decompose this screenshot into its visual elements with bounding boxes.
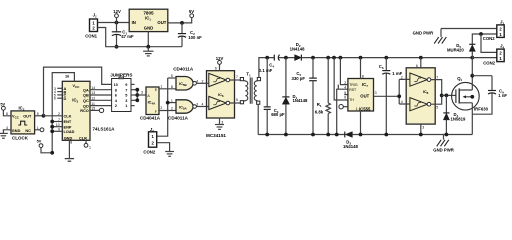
ground counter earth bbox=[65, 159, 74, 162]
terminal 5V clock bbox=[2, 106, 6, 110]
svg-text:OUT: OUT bbox=[360, 94, 369, 99]
gate IC5B bbox=[176, 77, 196, 91]
wire rail to TRIG bbox=[340, 58, 348, 85]
svg-text:QA: QA bbox=[83, 88, 89, 92]
wire 7805 GND stem bbox=[147, 32, 149, 47]
svg-text:GND PWR: GND PWR bbox=[413, 31, 434, 36]
node rail rst bbox=[339, 56, 343, 60]
wire power return bottom bbox=[98, 28, 183, 47]
driver IC8 bbox=[406, 68, 435, 124]
svg-text:2: 2 bbox=[160, 106, 162, 110]
svg-text:15: 15 bbox=[91, 107, 95, 111]
wire drain vertical bbox=[471, 58, 473, 90]
wire CV stub bbox=[344, 94, 348, 96]
svg-text:NC: NC bbox=[25, 129, 31, 133]
ground GND PWR upper bbox=[434, 29, 446, 44]
terminal discharge open bbox=[339, 105, 343, 109]
svg-text:1: 1 bbox=[160, 85, 162, 89]
svg-text:T1: T1 bbox=[246, 72, 251, 78]
wire top rail mid bbox=[279, 57, 295, 59]
svg-text:6: 6 bbox=[344, 96, 346, 100]
node bottom D1 bbox=[284, 133, 288, 137]
wire input B stub bbox=[57, 91, 62, 93]
diode D2 bbox=[295, 55, 302, 61]
transistor Q1 IRF630 bbox=[452, 82, 480, 110]
connector J1 bbox=[90, 19, 98, 32]
transformer T1 primary terminals bbox=[240, 78, 243, 104]
svg-text:GND PWR: GND PWR bbox=[433, 148, 454, 153]
svg-text:74LS161A: 74LS161A bbox=[93, 126, 116, 131]
wire QB to jumpers bbox=[90, 94, 112, 96]
capacitor C9 bbox=[472, 76, 496, 115]
svg-text:CON2: CON2 bbox=[483, 60, 495, 65]
node C1 bottom junction bbox=[115, 45, 119, 49]
wire QC to jumpers bbox=[90, 99, 112, 101]
wire IC2 NC stub bbox=[35, 129, 41, 131]
connector J3 bbox=[497, 25, 504, 38]
wire IC6 out7 to T1 bbox=[235, 79, 241, 81]
wire rail to TH bbox=[334, 58, 348, 100]
diode D1 bbox=[282, 58, 289, 135]
connector J4 bbox=[497, 49, 504, 62]
svg-text:CD4011A: CD4011A bbox=[173, 66, 194, 71]
svg-text:C6: C6 bbox=[379, 64, 384, 70]
svg-text:100 nF: 100 nF bbox=[188, 35, 202, 40]
svg-text:2: 2 bbox=[344, 81, 346, 85]
svg-text:1: 1 bbox=[37, 126, 39, 130]
node D4 tap bbox=[445, 94, 449, 98]
wire CLK from clock bbox=[44, 115, 63, 117]
wire jumper pin 1 stub bbox=[131, 105, 135, 107]
wire E output bbox=[159, 88, 176, 90]
svg-text:2: 2 bbox=[115, 104, 117, 108]
wire secondary top to rail bbox=[257, 58, 260, 78]
node rail trig bbox=[332, 56, 336, 60]
wire counter GND stem bbox=[68, 140, 70, 158]
capacitor C3 bbox=[264, 58, 271, 135]
oscillator IC2 bbox=[11, 111, 35, 134]
transformer T1 core bbox=[250, 78, 252, 104]
svg-text:13: 13 bbox=[91, 91, 95, 95]
svg-text:0.1 mF: 0.1 mF bbox=[259, 68, 273, 73]
svg-text:5: 5 bbox=[436, 105, 438, 109]
wire branch to J4 pin2 bbox=[481, 34, 497, 52]
wire F output bbox=[159, 110, 176, 112]
wire jumper pin 7 bbox=[131, 89, 137, 91]
svg-text:1N4148: 1N4148 bbox=[293, 98, 309, 103]
ground supply earth bbox=[143, 47, 153, 56]
wire IC8 outputs join bbox=[435, 80, 442, 105]
terminal 5V counter bbox=[39, 144, 43, 148]
wire ENP stub bbox=[52, 126, 62, 128]
node rail end drain bbox=[470, 56, 474, 60]
connector JUMPERS bbox=[112, 77, 131, 111]
wire input C stub bbox=[57, 94, 62, 96]
svg-text:CD4011A: CD4011A bbox=[168, 115, 189, 120]
node bottom C5 bbox=[311, 133, 315, 137]
node jumper 7 bbox=[135, 88, 139, 92]
wire 555 discharge stub bbox=[343, 106, 348, 108]
gate IC5A bbox=[176, 100, 196, 113]
svg-text:8: 8 bbox=[70, 140, 72, 144]
svg-text:8: 8 bbox=[362, 75, 364, 79]
svg-text:CLR: CLR bbox=[79, 136, 87, 140]
svg-text:1N4148: 1N4148 bbox=[290, 46, 306, 51]
wire jumpers to IC4A input bbox=[137, 94, 146, 96]
node rail IC8 vcc bbox=[419, 56, 423, 60]
node ENP junction bbox=[50, 125, 54, 129]
wire input D stub bbox=[57, 97, 62, 99]
svg-text:12V: 12V bbox=[216, 56, 224, 61]
wire gate5B out bbox=[196, 82, 206, 84]
node IC8 input junction bbox=[397, 94, 401, 98]
svg-text:CLK: CLK bbox=[64, 114, 72, 118]
capacitor C4 series bbox=[274, 55, 279, 61]
svg-text:OUT: OUT bbox=[157, 20, 166, 25]
wire IC6 VCC pin 6 bbox=[219, 64, 221, 70]
wire 555 OUT to IC8 bbox=[374, 95, 400, 97]
svg-text:8: 8 bbox=[6, 112, 8, 116]
timer IC7 555 bbox=[348, 79, 374, 112]
wire QA to jumpers bbox=[90, 89, 112, 91]
wire gate5B in pin 5 bbox=[168, 77, 176, 79]
svg-text:14: 14 bbox=[91, 86, 95, 90]
wire jumper pin 3 bbox=[131, 99, 137, 101]
node rail D1 bbox=[284, 56, 288, 60]
svg-text:RCO: RCO bbox=[80, 109, 89, 113]
svg-text:8: 8 bbox=[171, 85, 173, 89]
svg-text:5V: 5V bbox=[0, 102, 5, 106]
wire source vertical bbox=[471, 103, 473, 135]
buffer IC4A bbox=[146, 87, 159, 115]
svg-text:330 pF: 330 pF bbox=[292, 76, 306, 81]
wire TRIG RST tie bbox=[337, 85, 339, 90]
node bottom C3 bbox=[265, 133, 269, 137]
svg-text:5: 5 bbox=[37, 112, 39, 116]
connector J2 bbox=[149, 132, 157, 147]
wire IC6 out5 to T1 bbox=[235, 102, 241, 104]
wire IC2 VCC pin 8 bbox=[3, 110, 11, 116]
node gate pin1 junction bbox=[166, 101, 170, 105]
wire 12V stem bbox=[116, 18, 118, 23]
node rail C3 bbox=[265, 56, 269, 60]
wire gate drive bbox=[442, 94, 456, 96]
node clock out junction bbox=[42, 114, 46, 118]
svg-text:QD: QD bbox=[83, 104, 89, 108]
terminal RCO open bbox=[99, 108, 103, 112]
diode D3 bbox=[345, 132, 353, 138]
node bottom IC8 gnd bbox=[419, 133, 423, 137]
wire secondary bottom to rail bbox=[257, 104, 259, 134]
svg-text:4: 4 bbox=[202, 103, 204, 107]
node rail C6 bbox=[384, 56, 388, 60]
wire QD to jumpers bbox=[90, 105, 112, 107]
node 5V junction bbox=[50, 151, 54, 155]
wire IC8 GND pin 3 bbox=[420, 124, 422, 134]
wire rail to J4 pin1 bbox=[472, 57, 497, 59]
wire bottom rail right bbox=[352, 134, 472, 136]
resistor R1 bbox=[326, 58, 330, 135]
svg-text:1: 1 bbox=[89, 145, 91, 149]
svg-text:CD4041A: CD4041A bbox=[140, 115, 161, 120]
svg-text:QC: QC bbox=[83, 99, 89, 103]
ground driver earth bbox=[215, 125, 224, 130]
wire IC2 OUT pin 5 bbox=[35, 115, 44, 117]
svg-text:IC555: IC555 bbox=[359, 106, 371, 111]
svg-text:3: 3 bbox=[221, 120, 223, 124]
terminal CLR open bbox=[84, 143, 88, 147]
svg-text:IN: IN bbox=[132, 20, 136, 25]
svg-text:GND: GND bbox=[12, 129, 21, 133]
svg-text:ENT: ENT bbox=[64, 120, 72, 124]
ground J2 earth bbox=[165, 152, 174, 157]
wire top rail right bbox=[301, 57, 472, 59]
svg-text:6.8k: 6.8k bbox=[315, 109, 324, 114]
node bottom CV bbox=[335, 133, 339, 137]
svg-text:D: D bbox=[64, 97, 67, 101]
node rail R1 bbox=[326, 56, 330, 60]
wire IC8 VCC pin 6 bbox=[420, 58, 422, 68]
wire J2 pin2 to ground bbox=[157, 143, 170, 152]
svg-text:ENP: ENP bbox=[64, 125, 72, 129]
svg-text:3: 3 bbox=[196, 103, 198, 107]
wire J1 pin1 to 7805 IN bbox=[98, 22, 130, 24]
svg-text:J1: J1 bbox=[93, 12, 97, 18]
svg-text:IRF630: IRF630 bbox=[474, 106, 489, 111]
svg-text:LOAD: LOAD bbox=[64, 130, 75, 134]
transformer T1 secondary winding bbox=[254, 80, 257, 102]
ground clock earth bbox=[0, 133, 8, 138]
svg-text:6: 6 bbox=[416, 64, 418, 68]
node ENT junction bbox=[50, 120, 54, 124]
wire RCO stub bbox=[90, 109, 99, 111]
wire CLR stub bbox=[85, 140, 87, 143]
svg-text:3: 3 bbox=[422, 126, 424, 130]
svg-text:RST: RST bbox=[349, 88, 357, 92]
terminal 5V bbox=[190, 14, 194, 18]
svg-text:12: 12 bbox=[91, 97, 95, 101]
wire 5V to counter bbox=[41, 148, 52, 153]
svg-text:1N5819: 1N5819 bbox=[451, 116, 467, 121]
svg-text:12V: 12V bbox=[113, 9, 121, 14]
driver IC6 MC34151 bbox=[207, 71, 235, 118]
wire jumper pin 9 stub bbox=[131, 83, 135, 85]
node bottom 555 gnd bbox=[359, 133, 363, 137]
wire input A stub bbox=[57, 87, 62, 89]
svg-text:3: 3 bbox=[125, 99, 127, 103]
wire IC6 GND pin 3 bbox=[219, 118, 221, 124]
svg-text:11: 11 bbox=[91, 102, 95, 106]
svg-text:5: 5 bbox=[344, 91, 346, 95]
capacitor C6 bbox=[382, 58, 390, 135]
diode D4 bbox=[443, 95, 449, 134]
node jumper 5 bbox=[135, 93, 139, 97]
transformer T1 primary winding bbox=[244, 80, 248, 101]
wire bottom rail left bbox=[258, 134, 345, 136]
node bottom R1 bbox=[326, 133, 330, 137]
wire drain to C9 branch bbox=[472, 75, 492, 77]
node rail 555 vcc bbox=[359, 56, 363, 60]
svg-text:5V: 5V bbox=[189, 9, 194, 14]
svg-text:2: 2 bbox=[401, 75, 403, 79]
capacitor C2 bbox=[178, 23, 186, 47]
svg-text:9: 9 bbox=[125, 83, 127, 87]
wire LOAD stub bbox=[52, 130, 62, 132]
svg-text:2: 2 bbox=[171, 107, 173, 111]
wire 7805 OUT to 5V bbox=[168, 18, 192, 23]
svg-text:47 mF: 47 mF bbox=[121, 34, 134, 39]
svg-text:CON2: CON2 bbox=[483, 36, 495, 41]
svg-text:6: 6 bbox=[215, 67, 217, 71]
svg-text:5: 5 bbox=[171, 74, 173, 78]
wire J3 pin2 to gnd pwr bbox=[441, 28, 497, 30]
svg-text:4: 4 bbox=[344, 86, 346, 90]
svg-text:7: 7 bbox=[58, 118, 60, 122]
node driver out junction bbox=[440, 94, 444, 98]
wire clock to jumpers pin 10 bbox=[44, 67, 112, 116]
svg-text:7: 7 bbox=[125, 88, 127, 92]
node drain branch bbox=[470, 74, 474, 78]
svg-text:R1: R1 bbox=[317, 102, 322, 108]
wire ENT stub bbox=[52, 121, 62, 123]
svg-text:7: 7 bbox=[236, 75, 238, 79]
svg-text:1: 1 bbox=[171, 99, 173, 103]
wire jumper pin 5 bbox=[131, 94, 137, 96]
wire J3 pin1 branch bbox=[472, 34, 497, 44]
svg-text:OUT: OUT bbox=[23, 115, 32, 119]
capacitor C1 bbox=[112, 23, 121, 47]
node J3 branch bbox=[479, 32, 483, 36]
svg-text:QB: QB bbox=[83, 94, 89, 98]
svg-text:7: 7 bbox=[436, 75, 438, 79]
wire IC2 GND pin 4 bbox=[3, 130, 11, 133]
svg-text:CON1: CON1 bbox=[85, 34, 97, 39]
svg-text:F: F bbox=[155, 110, 157, 114]
wire gate5A out bbox=[196, 106, 206, 108]
terminal NC open bbox=[40, 128, 44, 132]
counter IC3 74LS161A bbox=[62, 81, 90, 140]
svg-text:4: 4 bbox=[6, 126, 8, 130]
svg-text:MUR420: MUR420 bbox=[447, 48, 464, 53]
wire 555 VCC pin 8 bbox=[360, 58, 362, 79]
regulator IC1 7805 bbox=[129, 9, 168, 31]
svg-text:TRIG: TRIG bbox=[349, 83, 358, 87]
svg-text:680 pF: 680 pF bbox=[271, 112, 285, 117]
svg-text:JUMPERS: JUMPERS bbox=[110, 73, 132, 78]
node 12V junction bbox=[115, 21, 119, 25]
terminal 12V driver bbox=[218, 61, 222, 65]
svg-text:9: 9 bbox=[58, 128, 60, 132]
svg-text:4: 4 bbox=[196, 79, 198, 83]
wire IC8 input vertical bbox=[399, 79, 406, 104]
wire RST to bottom rail bbox=[337, 89, 348, 134]
svg-text:10: 10 bbox=[114, 83, 118, 87]
svg-text:6: 6 bbox=[115, 94, 117, 98]
svg-text:5V: 5V bbox=[37, 139, 42, 143]
node GND junction bbox=[146, 45, 150, 49]
node rail C5 bbox=[311, 56, 315, 60]
wire gate5A in pin 1 bbox=[168, 102, 176, 104]
svg-text:GND: GND bbox=[144, 26, 153, 31]
wire top rail left bbox=[258, 57, 274, 59]
wire gates common vertical to J2 bbox=[157, 78, 168, 136]
svg-text:MC34151: MC34151 bbox=[206, 133, 226, 138]
svg-text:2: 2 bbox=[202, 79, 204, 83]
svg-text:TH: TH bbox=[349, 98, 354, 102]
svg-text:1 nF: 1 nF bbox=[498, 93, 507, 98]
ground GND PWR lower bbox=[437, 135, 449, 147]
transformer T1 secondary terminals bbox=[257, 78, 261, 105]
svg-text:10: 10 bbox=[56, 123, 60, 127]
wire jumper common vertical bbox=[136, 90, 138, 101]
node OUT junction bbox=[180, 21, 184, 25]
wire VCC pin 16 path bbox=[52, 73, 74, 153]
svg-text:16: 16 bbox=[65, 74, 69, 78]
svg-text:3: 3 bbox=[141, 91, 143, 95]
node bottom D4 bbox=[445, 133, 449, 137]
svg-text:2: 2 bbox=[58, 112, 60, 116]
svg-text:1N4148: 1N4148 bbox=[343, 144, 359, 149]
svg-text:4: 4 bbox=[401, 100, 403, 104]
node LOAD junction bbox=[50, 129, 54, 133]
capacitor C5 bbox=[309, 58, 317, 135]
svg-text:3: 3 bbox=[375, 91, 377, 95]
diode D5 MUR420 bbox=[469, 44, 475, 57]
svg-text:CLOCK: CLOCK bbox=[12, 135, 29, 140]
svg-text:5: 5 bbox=[236, 98, 238, 102]
node jumper 3 bbox=[135, 98, 139, 102]
svg-text:6: 6 bbox=[54, 97, 56, 101]
node bottom C6 bbox=[384, 133, 388, 137]
svg-text:1: 1 bbox=[356, 107, 358, 111]
svg-text:CON2: CON2 bbox=[143, 149, 155, 154]
svg-text:Q1: Q1 bbox=[457, 76, 462, 82]
wire 555 GND pin 1 bbox=[360, 111, 362, 135]
terminal 12V bbox=[115, 14, 119, 18]
